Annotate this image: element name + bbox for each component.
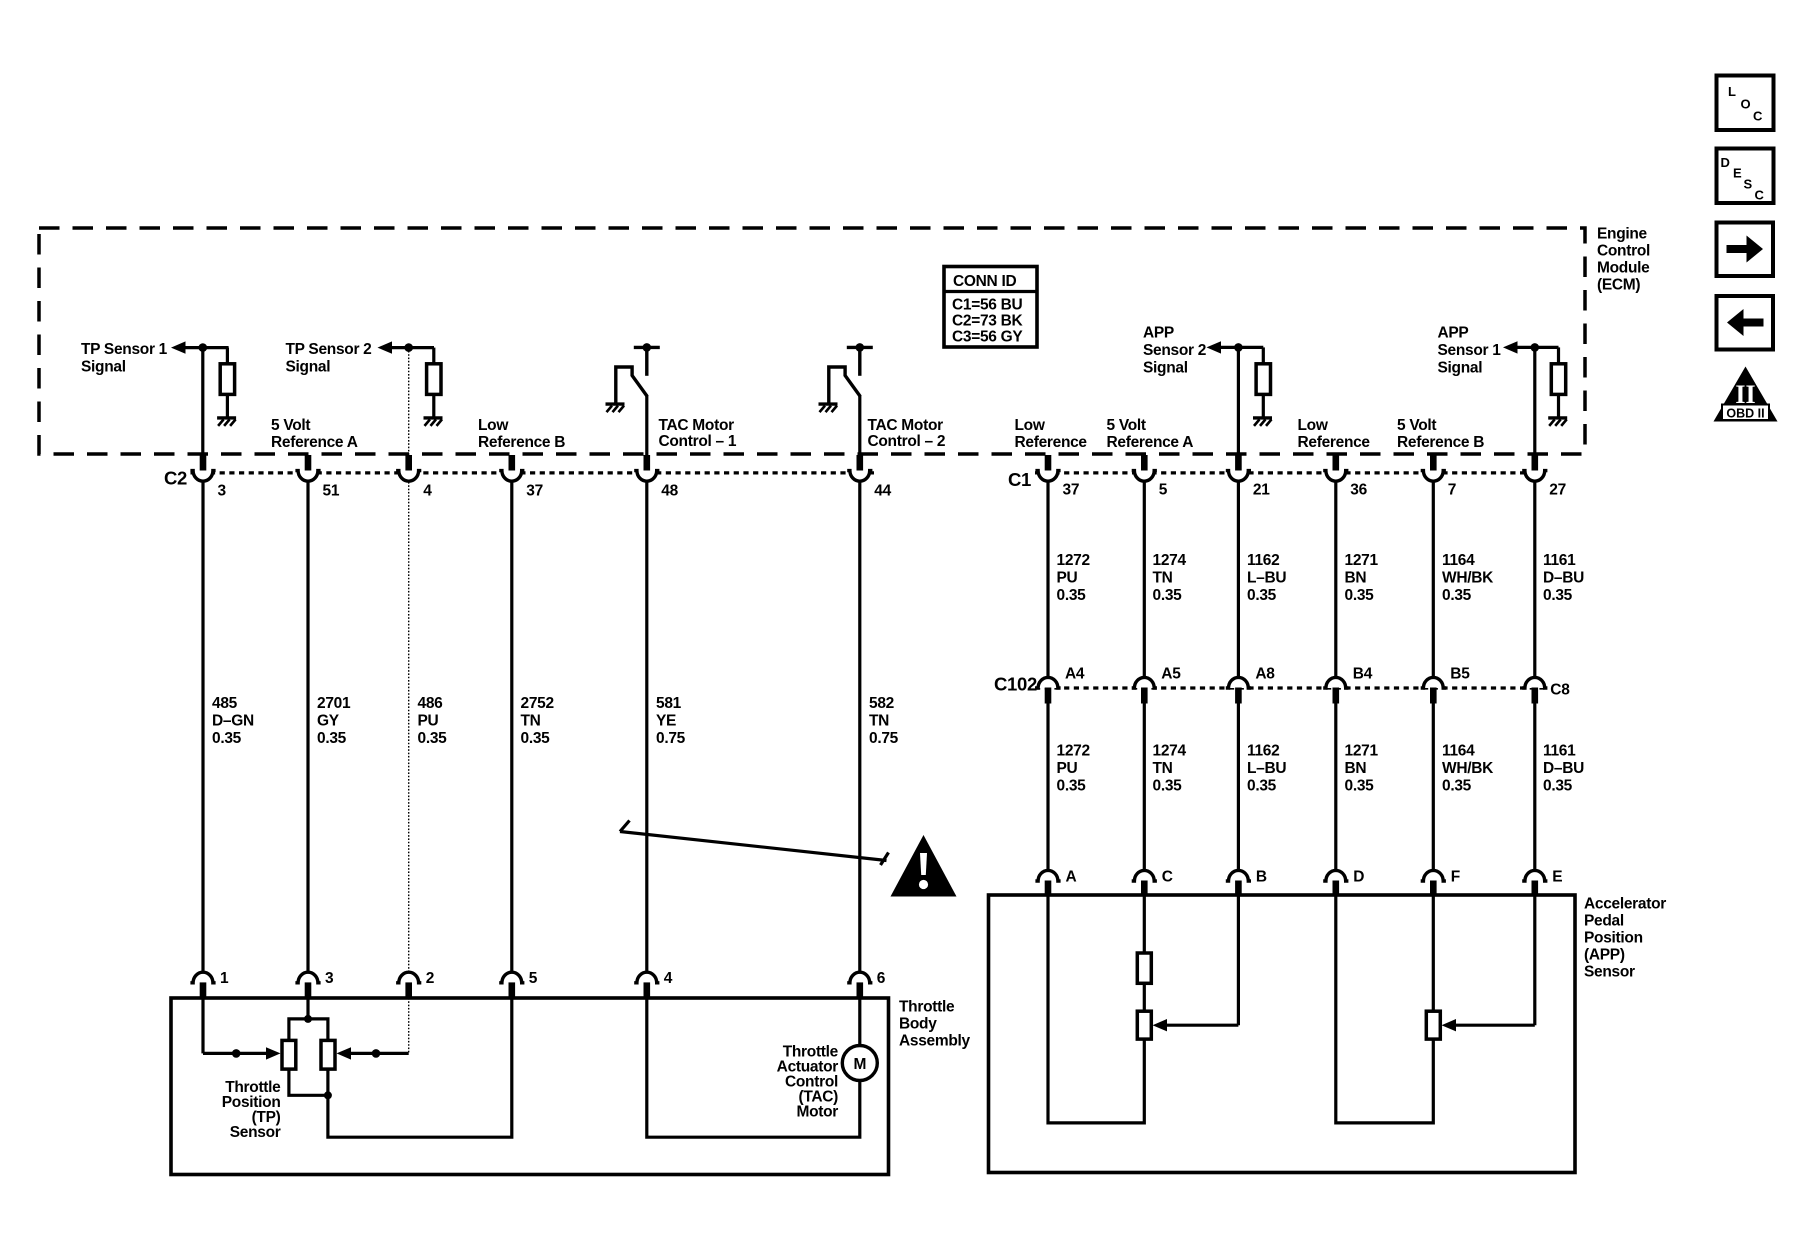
resistor R-APP2 (internal pull-up) [1256, 364, 1270, 395]
throttle body pin 1: hump terminal [190, 972, 215, 983]
svg-text:WH/BK: WH/BK [1442, 569, 1494, 586]
CONN ID table [944, 267, 1037, 348]
svg-text:7: 7 [1448, 482, 1456, 499]
svg-text:YE: YE [656, 712, 676, 729]
TAC Motor Control - 2 driver: supply bar [847, 346, 873, 349]
wire label 1274 TN 0.35 (lower) [1153, 743, 1187, 795]
connector C1 pin 21: harness cup terminal [1226, 471, 1251, 482]
wire: TB pin 2 to TP sensor wiper right [351, 1052, 409, 1055]
svg-text:APP: APP [1438, 325, 1469, 342]
APP sensor pin E: hump terminal [1522, 870, 1547, 881]
svg-text:S: S [1744, 177, 1753, 192]
svg-text:(ECM): (ECM) [1597, 277, 1640, 294]
wire label 486 PU 0.35 [418, 695, 448, 747]
svg-text:Position: Position [1584, 930, 1643, 947]
fixed contact stub TAC 2 [858, 347, 861, 375]
wire: APP pin F down to element resistor [1432, 895, 1435, 1012]
wire label 1272 PU 0.35 (upper) [1057, 552, 1090, 604]
connector C1 pin 37: ECM-side tick [1045, 455, 1052, 471]
wire: corner down to resistor R-TP1 [226, 348, 229, 365]
connector C102 pin A8: upper hump terminal [1226, 677, 1251, 688]
wire: APP pin D down and across to sensor 1 element bottom [1336, 895, 1434, 1123]
connector C2 pin 48: harness cup terminal [634, 471, 659, 482]
throttle body pin 5: hump terminal [499, 972, 524, 983]
svg-text:48: 48 [661, 483, 678, 500]
svg-text:A: A [1066, 869, 1077, 886]
connector C2 pin 44: harness cup terminal [847, 471, 872, 482]
wire: resistor R-TP2 to ground [432, 394, 435, 417]
wire: TAC 1 switch to pin [645, 396, 648, 458]
svg-text:2752: 2752 [521, 695, 554, 712]
APP sensor pin E: tick into sensor [1532, 881, 1539, 896]
wire 1271 BN 0.35 (C102-B4 to APP-D) [1334, 704, 1337, 870]
svg-text:Control – 1: Control – 1 [659, 433, 737, 450]
connector C102 pin C8: lower tick [1532, 688, 1539, 704]
wire label 2701 GY 0.35 [317, 695, 351, 747]
connector C1 pin 7: ECM-side tick [1430, 455, 1437, 471]
TP sensor bottom loop [289, 1069, 328, 1095]
label: Low Reference B (C2-37) [478, 417, 565, 451]
fixed contact stub TAC 1 [645, 347, 648, 375]
switch arm TAC 1 [616, 367, 648, 403]
svg-text:36: 36 [1350, 482, 1367, 499]
junction node on pin 2 wiper wire [372, 1049, 381, 1058]
connector C1 pin 36: harness cup terminal [1323, 471, 1348, 482]
label: Low Reference (C1-36) [1298, 417, 1371, 451]
throttle body pin 3: tick into assembly [305, 982, 312, 998]
wire: TP Sensor 2 arrow to resistor corner [390, 346, 435, 349]
svg-text:TN: TN [1153, 569, 1173, 586]
wire label 581 YE 0.75 [656, 695, 686, 747]
svg-text:TAC Motor: TAC Motor [659, 417, 735, 434]
svg-text:C: C [1755, 188, 1765, 203]
svg-text:0.35: 0.35 [1057, 777, 1087, 794]
svg-text:51: 51 [323, 483, 340, 500]
svg-text:Pedal: Pedal [1584, 913, 1624, 930]
wire: TP sensor bottom to low-reference return [328, 998, 512, 1137]
APP sensor 2 series resistor (upper) [1137, 953, 1151, 983]
svg-text:1162: 1162 [1247, 552, 1279, 569]
svg-text:B4: B4 [1353, 666, 1373, 683]
wire label 1162 L-BU 0.35 (lower) [1247, 743, 1286, 795]
svg-text:Signal: Signal [1438, 360, 1483, 377]
wire: TP Sensor 1 arrow to resistor corner [183, 346, 229, 349]
wire label 1272 PU 0.35 (lower) [1057, 743, 1090, 795]
svg-text:Control – 2: Control – 2 [868, 433, 946, 450]
ground symbol under R-TP1 [217, 418, 236, 426]
connector C102 pin B4: lower tick [1333, 688, 1340, 704]
wire 1164 WH/BK 0.35 (C1-7 to C102-B5) [1432, 482, 1435, 678]
svg-text:C3=56 GY: C3=56 GY [952, 329, 1023, 346]
connector C2 pin 4: harness cup terminal [396, 471, 421, 482]
connector C102 pin B5: upper hump terminal [1421, 677, 1446, 688]
wire: corner down to resistor R-TP2 [432, 348, 435, 365]
svg-text:1164: 1164 [1442, 743, 1475, 760]
junction node at TP sensor top [304, 1015, 312, 1023]
svg-text:Sensor: Sensor [230, 1124, 281, 1141]
svg-text:TN: TN [521, 712, 541, 729]
svg-text:Throttle: Throttle [899, 999, 955, 1016]
TP Sensor 1 signal arrow [171, 341, 186, 353]
svg-text:TN: TN [1153, 760, 1173, 777]
svg-text:B5: B5 [1450, 666, 1470, 683]
svg-text:2701: 2701 [317, 695, 351, 712]
svg-text:Reference A: Reference A [271, 434, 358, 451]
ground symbol for TAC 2 switch arm [819, 404, 838, 412]
svg-text:F: F [1451, 869, 1460, 886]
svg-text:C: C [1753, 109, 1763, 124]
Throttle Actuator Control (TAC) Motor label [777, 1044, 839, 1121]
DESC nav box [1717, 149, 1774, 204]
ground symbol for TAC 1 switch arm [606, 404, 625, 412]
svg-text:Sensor 1: Sensor 1 [1438, 342, 1502, 359]
connector C1 pin 27: ECM-side tick [1532, 455, 1539, 471]
svg-text:Module: Module [1597, 260, 1650, 277]
APP Sensor 1 Signal label [1438, 325, 1502, 377]
connector C2 pin 44: ECM-side tick [857, 455, 864, 471]
svg-text:1274: 1274 [1153, 743, 1187, 760]
svg-text:0.35: 0.35 [1247, 777, 1277, 794]
wiper arrow into TP sensor element 1 [266, 1047, 281, 1059]
throttle body pin 4: hump terminal [634, 972, 659, 983]
label: Low Reference (C1-37) [1015, 417, 1088, 451]
connector C102 pin B4: upper hump terminal [1323, 677, 1348, 688]
svg-text:TAC Motor: TAC Motor [868, 417, 944, 434]
connector C102 pin B5: lower tick [1430, 688, 1437, 704]
connector C1 pin 27: harness cup terminal [1522, 471, 1547, 482]
svg-text:A5: A5 [1161, 666, 1181, 683]
wiper arrow into TP sensor element 2 [337, 1047, 352, 1059]
svg-text:Sensor 2: Sensor 2 [1143, 342, 1206, 359]
TP sensor top loop [289, 1019, 328, 1041]
svg-text:L–BU: L–BU [1247, 569, 1286, 586]
Accelerator Pedal Position (APP) Sensor box [989, 895, 1576, 1173]
connector C102 pin A5: upper hump terminal [1132, 677, 1157, 688]
connector C2 pin 4: ECM-side tick [405, 455, 412, 471]
ECM APP sensor 1 wire inside module down to pin C1-27 [1533, 347, 1536, 457]
svg-text:Signal: Signal [1143, 360, 1188, 377]
svg-text:Low: Low [1015, 417, 1046, 434]
TP Sensor 2 Signal label [286, 341, 372, 376]
svg-text:GY: GY [317, 712, 340, 729]
svg-text:Reference: Reference [1015, 434, 1088, 451]
APP sensor pin D: hump terminal [1323, 870, 1348, 881]
APP sensor pin B: tick into sensor [1235, 881, 1242, 896]
svg-text:1162: 1162 [1247, 743, 1279, 760]
svg-text:5 Volt: 5 Volt [271, 417, 310, 434]
resistor R-APP1 (internal pull-up) [1551, 364, 1565, 395]
APP sensor pin D: tick into sensor [1333, 881, 1340, 896]
svg-text:C8: C8 [1550, 682, 1570, 699]
svg-text:0.35: 0.35 [212, 730, 242, 747]
connector C2 pin 3: harness cup terminal [190, 471, 215, 482]
APP sensor pin C: tick into sensor [1141, 881, 1148, 896]
wire: APP pin E wiper run [1455, 1024, 1535, 1027]
svg-text:PU: PU [1057, 569, 1078, 586]
connector C1 pin 5: ECM-side tick [1141, 455, 1148, 471]
TP sensor resistive element 1 [282, 1040, 296, 1069]
svg-text:37: 37 [526, 483, 543, 500]
wire label 1274 TN 0.35 (upper) [1153, 552, 1187, 604]
svg-text:4: 4 [423, 483, 432, 500]
svg-text:C102: C102 [994, 674, 1037, 695]
wire 1162 L-BU 0.35 (C102-A8 to APP-B) [1237, 704, 1240, 870]
svg-text:Signal: Signal [81, 359, 126, 376]
ECM label [1597, 226, 1650, 294]
svg-text:Engine: Engine [1597, 226, 1648, 243]
wire 581 YE 0.75 wire (C2-48 to TB-4) [645, 482, 648, 971]
svg-text:C2=73 BK: C2=73 BK [952, 313, 1024, 330]
junction node at TP sensor bottom [324, 1091, 332, 1099]
wire label 1161 D-BU 0.35 (lower) [1543, 743, 1584, 795]
connector C2 pin 37: ECM-side tick [509, 455, 516, 471]
junction node on pin 1 wiper wire [232, 1049, 241, 1058]
APP sensor pin B: hump terminal [1226, 870, 1251, 881]
connector C102 pin C8: upper hump terminal [1522, 677, 1547, 688]
connector C1 pin 7: harness cup terminal [1421, 471, 1446, 482]
TP Sensor 1 Signal label [81, 341, 168, 376]
svg-text:5: 5 [529, 970, 538, 987]
forward arrow nav box [1717, 223, 1774, 277]
svg-text:Low: Low [1298, 417, 1329, 434]
wire: corner down to resistor R-APP1 [1557, 347, 1560, 365]
wire: TAC 2 switch to pin [858, 396, 861, 458]
svg-text:PU: PU [418, 712, 439, 729]
wire 1272 PU 0.35 (C1-37 to C102-A4) [1046, 482, 1049, 678]
svg-text:1271: 1271 [1345, 552, 1379, 569]
APP Sensor 2 signal arrow [1207, 341, 1222, 353]
wire 582 TN 0.75 wire (C2-44 to TB-6) [858, 482, 861, 971]
svg-text:M: M [853, 1056, 866, 1073]
wire label 1164 WH/BK 0.35 (lower) [1442, 743, 1494, 795]
wire 1272 PU 0.35 (C102-A4 to APP-A) [1046, 704, 1049, 870]
junction node TAC 1 [643, 343, 652, 352]
svg-text:B: B [1256, 869, 1267, 886]
svg-text:D–GN: D–GN [212, 712, 254, 729]
svg-text:D: D [1353, 869, 1364, 886]
wire: APP pin A down and across to sensor 2 element bottom [1048, 895, 1144, 1123]
wire: TB pin 3 down to TP sensor top junction [306, 998, 309, 1019]
ECM TP sensor 1 wire inside module down to pin C2-3 [201, 348, 204, 457]
svg-text:0.75: 0.75 [869, 730, 899, 747]
svg-text:0.35: 0.35 [1345, 587, 1375, 604]
TAC Motor Control - 1 driver: supply bar [634, 346, 660, 349]
wire: TB pin 1 to TP sensor wiper left [203, 1052, 267, 1055]
junction node on TP Sensor 1 wire [199, 343, 208, 352]
svg-text:OBD II: OBD II [1726, 407, 1764, 421]
svg-text:WH/BK: WH/BK [1442, 760, 1494, 777]
svg-text:Reference B: Reference B [1397, 434, 1484, 451]
wire: resistor R-APP1 to ground [1557, 394, 1560, 417]
svg-text:Reference: Reference [1298, 434, 1371, 451]
svg-text:0.35: 0.35 [1442, 587, 1472, 604]
svg-text:D–BU: D–BU [1543, 760, 1584, 777]
svg-text:1: 1 [220, 970, 229, 987]
svg-text:TP Sensor 2: TP Sensor 2 [286, 341, 372, 358]
svg-text:3: 3 [325, 970, 334, 987]
connector C102 pin A8: lower tick [1235, 688, 1242, 704]
svg-text:BN: BN [1345, 760, 1367, 777]
svg-text:APP: APP [1143, 325, 1174, 342]
APP sensor pin A: tick into sensor [1045, 881, 1052, 896]
svg-text:Body: Body [899, 1016, 937, 1033]
svg-text:1272: 1272 [1057, 743, 1090, 760]
svg-text:1161: 1161 [1543, 552, 1576, 569]
TP sensor resistive element 2 [321, 1040, 335, 1069]
resistor R-TP1 (internal pull-up) [220, 364, 234, 395]
wire 1164 WH/BK 0.35 (C102-B5 to APP-F) [1432, 704, 1435, 870]
svg-text:BN: BN [1345, 569, 1367, 586]
svg-text:Signal: Signal [286, 359, 331, 376]
leader line right hook [881, 853, 889, 866]
wire: APP pin B wiper run [1166, 1024, 1238, 1027]
Throttle Body Assembly label [899, 999, 971, 1050]
APP sensor pin C: hump terminal [1132, 870, 1157, 881]
svg-text:C2: C2 [164, 468, 187, 489]
svg-text:L: L [1728, 84, 1736, 99]
throttle body pin 6: hump terminal [847, 972, 872, 983]
junction node on APP Sensor 2 wire [1234, 343, 1243, 352]
svg-text:27: 27 [1549, 482, 1566, 499]
svg-text:A8: A8 [1255, 666, 1275, 683]
svg-text:581: 581 [656, 695, 682, 712]
svg-text:PU: PU [1057, 760, 1078, 777]
OBD II warning triangle icon [1714, 367, 1778, 422]
svg-text:Accelerator: Accelerator [1584, 896, 1666, 913]
ground symbol under R-TP2 [424, 418, 443, 426]
throttle body pin 6: tick into assembly [857, 982, 864, 998]
APP sensor pin F: hump terminal [1421, 870, 1446, 881]
svg-text:0.35: 0.35 [521, 730, 551, 747]
wire label 582 TN 0.75 [869, 695, 899, 747]
wiper arrow into APP sensor 2 element [1153, 1019, 1168, 1031]
svg-text:C1=56 BU: C1=56 BU [952, 297, 1023, 314]
svg-text:0.35: 0.35 [418, 730, 448, 747]
wiper arrow into APP sensor 1 element [1442, 1019, 1457, 1031]
wire 1271 BN 0.35 (C1-36 to C102-B4) [1334, 482, 1337, 678]
leader line left hook [620, 821, 630, 832]
svg-text:5: 5 [1159, 482, 1168, 499]
connector C2 dotted harness line [191, 471, 875, 474]
LOC nav box [1717, 76, 1774, 131]
svg-text:0.75: 0.75 [656, 730, 686, 747]
wire: APP Sensor 2 arrow to resistor corner [1219, 346, 1264, 349]
wire: TB pin 2 down inside box (thin) [408, 998, 410, 1053]
svg-text:0.35: 0.35 [1247, 587, 1277, 604]
wire: APP pin B down to wiper [1237, 895, 1240, 1025]
Engine Control Module (ECM) dashed boundary box [39, 228, 1585, 454]
svg-text:5 Volt: 5 Volt [1397, 417, 1436, 434]
svg-text:4: 4 [664, 970, 673, 987]
svg-text:1161: 1161 [1543, 743, 1576, 760]
ECM APP sensor 2 wire inside module down to pin C1-21 [1237, 347, 1240, 457]
wire: TB pin 1 down inside box [201, 998, 204, 1053]
wire: TB pin 6 down to TAC motor [858, 998, 861, 1046]
throttle body pin 2: hump terminal [396, 972, 421, 983]
APP sensor pin F: tick into sensor [1430, 881, 1437, 896]
wire 2752 TN 0.35 wire (C2-37 to TB-5) [510, 482, 513, 971]
svg-text:0.35: 0.35 [1153, 587, 1183, 604]
throttle body pin 4: tick into assembly [644, 982, 651, 998]
TAC Motor Control - 2 label [868, 417, 946, 450]
APP sensor pin A: hump terminal [1035, 870, 1060, 881]
svg-text:485: 485 [212, 695, 238, 712]
svg-text:3: 3 [218, 483, 227, 500]
connector C102 pin A4: lower tick [1045, 688, 1052, 704]
wire label 2752 TN 0.35 [521, 695, 554, 747]
label: 5 Volt Reference B (C1-7) [1397, 417, 1484, 451]
svg-text:0.35: 0.35 [1543, 777, 1573, 794]
throttle body pin 5: tick into assembly [509, 982, 516, 998]
svg-text:2: 2 [426, 970, 434, 987]
annotation leader line across TAC motor wires [620, 832, 887, 861]
svg-text:(APP): (APP) [1584, 947, 1625, 964]
APP Sensor label [1584, 896, 1666, 981]
wire label 1271 BN 0.35 (lower) [1345, 743, 1379, 795]
TP Sensor 2 signal arrow [378, 341, 393, 353]
svg-text:1272: 1272 [1057, 552, 1090, 569]
wire between APP sensor 2 resistors [1143, 983, 1146, 1012]
wire label 1162 L-BU 0.35 (upper) [1247, 552, 1286, 604]
junction node TAC 2 [856, 343, 865, 352]
ground symbol under R-APP1 [1548, 418, 1567, 426]
switch arm TAC 2 [829, 367, 861, 403]
wire 2701 GY 0.35 wire (C2-51 to TB-3) [306, 482, 309, 971]
connector C1 pin 37: harness cup terminal [1035, 471, 1060, 482]
Throttle Position (TP) Sensor label [222, 1079, 281, 1141]
svg-text:C: C [1162, 869, 1173, 886]
connector C1 pin 36: ECM-side tick [1333, 455, 1340, 471]
svg-text:C1: C1 [1008, 469, 1031, 490]
wire: corner down to resistor R-APP2 [1262, 347, 1265, 365]
wire 485 D-GN 0.35 wire (C2-3 to TB-1) [201, 482, 204, 971]
wire label 1161 D-BU 0.35 (upper) [1543, 552, 1584, 604]
TAC motor M circle [842, 1046, 877, 1081]
svg-text:O: O [1741, 97, 1751, 112]
svg-text:Reference A: Reference A [1107, 434, 1194, 451]
wire 1161 D-BU 0.35 (C1-27 to C102-C8) [1533, 482, 1536, 678]
svg-text:0.35: 0.35 [1442, 777, 1472, 794]
wire label 1164 WH/BK 0.35 (upper) [1442, 552, 1494, 604]
svg-text:6: 6 [877, 970, 886, 987]
TAC Motor Control - 1 label [659, 417, 737, 450]
wire: APP Sensor 1 arrow to resistor corner [1515, 346, 1559, 349]
wire: resistor R-TP1 to ground [226, 394, 229, 417]
APP Sensor 1 signal arrow [1503, 341, 1518, 353]
connector C102 pin A5: lower tick [1141, 688, 1148, 704]
back arrow nav box [1717, 296, 1774, 350]
APP sensor 2 element resistor (lower) [1137, 1011, 1151, 1039]
resistor R-TP2 (internal pull-up) [427, 364, 441, 395]
wire: APP pin E down to wiper [1533, 895, 1536, 1025]
svg-text:486: 486 [418, 695, 444, 712]
ground symbol under R-APP2 [1253, 418, 1272, 426]
svg-text:0.35: 0.35 [1345, 777, 1375, 794]
svg-text:1271: 1271 [1345, 743, 1379, 760]
svg-text:1274: 1274 [1153, 552, 1187, 569]
wire label 1271 BN 0.35 (upper) [1345, 552, 1379, 604]
wire: resistor R-APP2 to ground [1262, 394, 1265, 417]
svg-text:Low: Low [478, 417, 509, 434]
connector C2 pin 51: harness cup terminal [295, 471, 320, 482]
svg-text:44: 44 [874, 483, 891, 500]
svg-text:D–BU: D–BU [1543, 569, 1584, 586]
svg-text:5 Volt: 5 Volt [1107, 417, 1146, 434]
svg-text:0.35: 0.35 [1153, 777, 1183, 794]
label: 5 Volt Reference A (C1-5) [1107, 417, 1194, 451]
svg-text:582: 582 [869, 695, 894, 712]
svg-text:Assembly: Assembly [899, 1033, 971, 1050]
